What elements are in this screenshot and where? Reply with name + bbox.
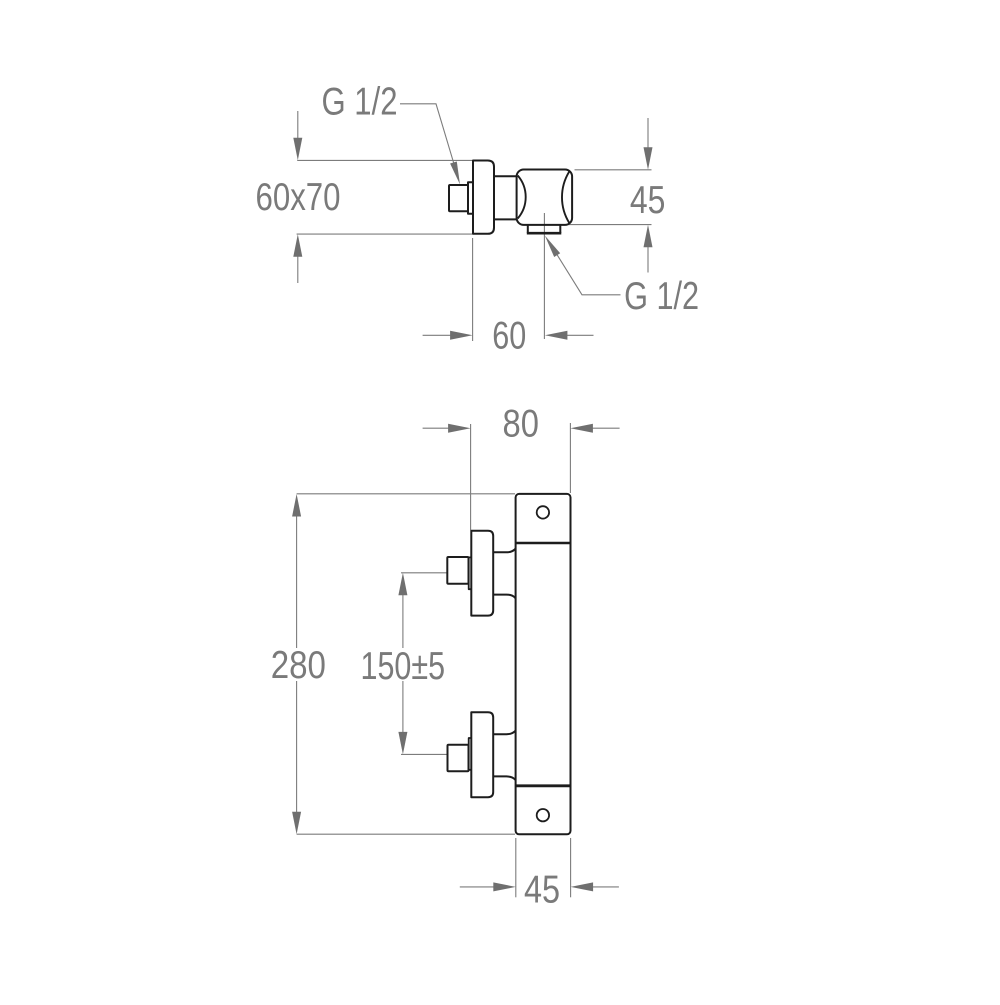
arrow 45 top — [644, 147, 653, 170]
wire dim stem 150 upper — [402, 592, 404, 648]
arrow 60 right — [545, 331, 568, 340]
wire leader G 1/2 bottom — [554, 249, 621, 295]
outlet right edge — [559, 225, 561, 233]
svg-text:60x70: 60x70 — [256, 176, 341, 219]
valve body side view — [517, 170, 573, 225]
wire dim stem 80 left — [423, 427, 453, 429]
arrow 280 top — [292, 494, 301, 517]
neck bottom line side view — [494, 218, 517, 220]
screw hole bottom — [537, 809, 549, 821]
wire extension line 280 bottom — [297, 833, 515, 835]
wire dim stem 80 right — [587, 427, 620, 429]
svg-text:60: 60 — [492, 314, 526, 357]
wire extension line 45 left — [515, 838, 517, 897]
wire dim stem 60x70 lower — [297, 249, 299, 283]
body left concave arc — [518, 176, 526, 219]
wire leader G 1/2 top — [400, 104, 456, 169]
arrow 60x70 bottom — [293, 234, 302, 257]
rail bottom crossbar — [516, 784, 571, 787]
arrow 45 bottom right — [571, 882, 594, 891]
svg-text:280: 280 — [271, 644, 326, 687]
neck top line side view — [494, 175, 517, 177]
lower valve neck top — [493, 731, 515, 735]
upper valve neck top — [493, 549, 515, 553]
svg-text:150±5: 150±5 — [361, 645, 446, 688]
wire extension line 60x70 top — [297, 159, 472, 161]
wire dim stem 60 right — [561, 334, 594, 336]
svg-text:80: 80 — [503, 402, 539, 445]
wire extension line 60x70 bottom — [297, 233, 473, 235]
body right concave arc — [562, 172, 569, 224]
arrow 150 bottom — [398, 732, 407, 755]
arrow 150 top — [398, 573, 407, 596]
svg-text:45: 45 — [630, 179, 666, 222]
arrow 60x70 top — [293, 138, 302, 161]
upper valve collar — [469, 557, 472, 589]
svg-text:45: 45 — [524, 868, 560, 911]
wire extension line 60 left — [472, 238, 474, 341]
inlet nipple side view — [449, 185, 468, 211]
wire extension line 150 top — [401, 572, 447, 574]
wire extension line 45 right — [570, 838, 572, 897]
wire extension line 80 left — [470, 424, 472, 530]
wire extension line 150 bottom — [401, 753, 448, 755]
wire dim stem 150 lower — [402, 681, 404, 736]
upper valve flange — [471, 531, 493, 616]
wire dim stem 60x70 upper — [297, 111, 299, 146]
lower valve neck bottom — [493, 776, 515, 780]
wire dim stem 45 left — [460, 886, 496, 888]
svg-text:G 1/2: G 1/2 — [322, 81, 398, 124]
wire dim stem 45 lower — [647, 242, 649, 273]
arrow leader G 1/2 bottom — [545, 236, 560, 258]
wire dim stem 45 right — [590, 886, 619, 888]
arrow 60 left — [450, 331, 473, 340]
wire dim stem 280 upper — [296, 512, 298, 648]
arrow 80 left — [448, 424, 471, 433]
arrow 80 right — [570, 424, 593, 433]
wire extension line 45 top — [575, 169, 652, 171]
lower valve nipple — [448, 745, 469, 772]
wire dim stem 60 left — [423, 334, 456, 336]
lower valve flange — [471, 712, 493, 797]
wire centerline outlet — [543, 213, 545, 339]
svg-text:G 1/2: G 1/2 — [624, 275, 699, 318]
outlet bottom edge — [527, 232, 562, 235]
flange plate side view — [473, 161, 494, 234]
rail top crossbar — [516, 542, 571, 544]
screw hole top — [537, 506, 549, 518]
arrow 280 bottom — [292, 812, 301, 835]
upper valve neck bottom — [493, 595, 515, 599]
wire extension line 45 bottom — [561, 224, 652, 226]
outlet left edge — [527, 225, 529, 233]
wire dim stem 280 lower — [296, 681, 298, 817]
arrow 45 bottom — [644, 225, 653, 248]
lower valve collar — [469, 738, 472, 770]
upper valve nipple — [447, 557, 468, 584]
wire extension line 80 right — [569, 423, 571, 493]
arrow leader G 1/2 top — [450, 162, 460, 185]
mounting rail front view — [516, 494, 571, 834]
wire dim stem 45 upper — [647, 118, 649, 152]
arrow 45 bottom left — [493, 882, 516, 891]
wire extension line 280 top — [297, 493, 515, 495]
collar side view — [468, 182, 473, 213]
